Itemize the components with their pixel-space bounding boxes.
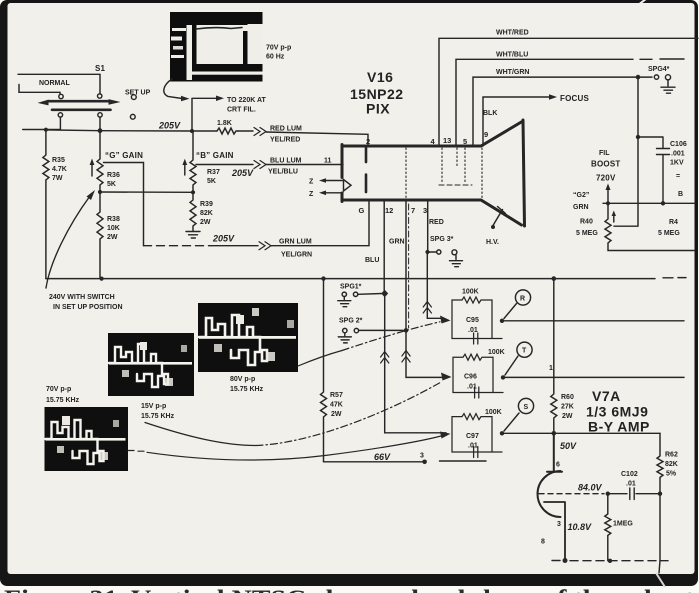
cut label B (676, 173, 683, 198)
pin 1 tick (549, 365, 553, 372)
svg-text:SPG 2*: SPG 2* (339, 318, 363, 325)
svg-text:2: 2 (366, 137, 370, 146)
node junction 1MEG bottom (608, 559, 612, 563)
label V16 15NP22 PIX (350, 69, 404, 117)
CRT V16 envelope (342, 120, 525, 226)
svg-text:YEL/RED: YEL/RED (270, 137, 300, 144)
wire WHT/RED (439, 38, 698, 146)
Z arrow lower (326, 192, 343, 194)
resistor R41 5 MEG (cut at edge) (658, 219, 680, 237)
svg-text:R36: R36 (107, 172, 120, 179)
chevrons on GRN branch (402, 351, 410, 363)
svg-text:R38: R38 (107, 216, 120, 223)
triode V7A cathode (544, 502, 565, 561)
wire BLU branch to C97 (385, 295, 446, 433)
svg-text:3: 3 (423, 206, 427, 215)
curved arrow from photo P1 (164, 79, 182, 99)
resistor R57 (321, 279, 327, 462)
svg-text:G: G (359, 206, 365, 215)
svg-text:RED LUM: RED LUM (270, 126, 302, 133)
svg-text:.01: .01 (468, 443, 478, 450)
resistor 1MEG (605, 494, 611, 561)
switch S1 bar 2 (52, 109, 111, 112)
svg-text:T: T (522, 348, 527, 355)
svg-text:100K: 100K (488, 349, 505, 356)
node junction cathode/ground line (563, 558, 568, 563)
capacitor C106 1KV (638, 137, 670, 203)
svg-text:BLK: BLK (483, 110, 497, 117)
svg-text:SPG4*: SPG4* (648, 66, 670, 73)
switch S1 contacts lower (58, 113, 62, 117)
svg-text:PIX: PIX (366, 101, 390, 117)
svg-text:70V p-p: 70V p-p (46, 386, 71, 393)
wire G2 bus (603, 202, 694, 204)
svg-text:YEL/GRN: YEL/GRN (281, 252, 312, 259)
node junction C96 out (501, 375, 505, 379)
label FIL BOOST 720V (591, 150, 620, 183)
node junction C102/R62 (658, 492, 662, 496)
svg-text:YEL/BLU: YEL/BLU (268, 169, 298, 176)
label BLK (483, 110, 497, 117)
svg-text:1KV: 1KV (670, 160, 684, 167)
wire GRN LUM dashed with chevrons (144, 245, 212, 247)
svg-text:6: 6 (556, 462, 560, 469)
svg-text:RED: RED (429, 219, 444, 226)
svg-text:2W: 2W (200, 219, 211, 226)
triode V7A grid (539, 493, 604, 495)
pin 7 (411, 206, 415, 215)
node junction C-cap tap (636, 135, 640, 139)
pin 2 (366, 137, 370, 146)
spark gap SPG4 (648, 66, 670, 73)
resistor R35 (43, 132, 49, 279)
label GRN (389, 239, 405, 246)
svg-text:7W: 7W (52, 175, 63, 182)
label RED LUM / YEL/RED (270, 126, 302, 144)
svg-text:IN SET UP POSITION: IN SET UP POSITION (53, 304, 123, 311)
svg-text:C97: C97 (466, 433, 479, 440)
svg-text:5K: 5K (107, 181, 116, 188)
label 70V p-p 15.75 KHz (46, 386, 80, 404)
svg-text:100K: 100K (485, 409, 502, 416)
wire 240V bus (46, 278, 686, 279)
node junction bus/R57 (321, 276, 325, 280)
wire NORMAL bracket (19, 85, 60, 95)
arrowhead into C95 (440, 316, 451, 324)
svg-text:R40: R40 (580, 219, 593, 226)
svg-text:SPG1*: SPG1* (340, 284, 362, 291)
wire R62 stub into frame (659, 561, 660, 573)
wire GRN branch to C96 (406, 330, 446, 377)
svg-text:“G” GAIN: “G” GAIN (105, 151, 143, 160)
pin 12 (385, 206, 393, 215)
curve from P4 to C97 (128, 450, 144, 453)
svg-text:WHT/RED: WHT/RED (496, 30, 529, 37)
svg-text:.001: .001 (671, 151, 685, 158)
wire from lower-left contact (23, 117, 61, 129)
label 70V p-p 60 Hz (266, 45, 291, 61)
node junction bus/R60 (552, 276, 557, 281)
svg-text:Z: Z (309, 191, 314, 198)
label GRN LUM / YEL/GRN (279, 239, 312, 259)
svg-text:10.8V: 10.8V (568, 522, 593, 532)
curved arrow 240V to R36 bottom (46, 196, 90, 288)
network box R-C C95 100K (452, 297, 502, 344)
wire SPG4 branch down (637, 77, 639, 137)
svg-text:5: 5 (463, 137, 467, 146)
chevrons on BLU branch (381, 352, 389, 364)
R40 wiper (613, 216, 615, 223)
wire arrow TO 220K (193, 97, 216, 99)
svg-text:“G2”: “G2” (573, 192, 589, 199)
node junction R36 bottom (98, 190, 102, 194)
label 205V (blu) (231, 168, 254, 178)
label 80V p-p 15.75 KHz (230, 376, 264, 393)
svg-text:V16: V16 (367, 69, 393, 85)
svg-text:5K: 5K (207, 178, 216, 185)
svg-text:205V: 205V (212, 234, 235, 244)
CRT grid bars (365, 148, 368, 192)
crease mark bottom frame (656, 573, 665, 587)
CRT internal dotted leads (406, 148, 482, 198)
svg-text:1/3 6MJ9: 1/3 6MJ9 (586, 404, 648, 420)
wire B-Y plate line (502, 432, 660, 434)
terminal 3 (422, 460, 427, 465)
svg-text:R62: R62 (665, 452, 678, 459)
svg-text:FOCUS: FOCUS (560, 94, 589, 103)
spark gap SPG3 (430, 236, 454, 243)
wire lower-right contact to bus (99, 117, 101, 131)
svg-text:47K: 47K (330, 402, 343, 409)
svg-text:R39: R39 (200, 201, 213, 208)
node junction R35 (44, 128, 48, 132)
svg-text:R57: R57 (330, 392, 343, 399)
arrowhead into C97 (440, 432, 451, 439)
label 15V p-p 15.75 KHz (141, 403, 175, 420)
svg-text:4.7K: 4.7K (52, 166, 67, 173)
pin G (359, 206, 365, 215)
svg-text:BLU: BLU (365, 257, 379, 264)
svg-text:NORMAL: NORMAL (39, 80, 70, 87)
svg-text:WHT/BLU: WHT/BLU (496, 52, 528, 59)
svg-text:R: R (520, 296, 525, 303)
wire RED branch to C95 (427, 252, 443, 318)
svg-text:84.0V: 84.0V (578, 483, 603, 493)
svg-text:80V p-p: 80V p-p (230, 376, 255, 383)
svg-text:9: 9 (484, 130, 488, 139)
triode V7A plate (547, 433, 562, 471)
svg-text:.01: .01 (467, 384, 477, 391)
svg-text:C96: C96 (464, 374, 477, 381)
scope photo P4 (70V p-p 15.75KHz) (45, 407, 129, 471)
crease mark top frame (638, 0, 646, 5)
svg-text:2W: 2W (331, 411, 342, 418)
label 205V (grn) (212, 234, 235, 244)
svg-text:R4: R4 (669, 219, 678, 226)
svg-text:“B” GAIN: “B” GAIN (196, 151, 234, 160)
node junction C95 out (500, 319, 504, 323)
SET UP position contacts (131, 95, 136, 100)
svg-text:15V p-p: 15V p-p (141, 403, 166, 410)
chevrons on RED branch (423, 302, 431, 314)
wire FOCUS arrow (483, 97, 549, 146)
label SET UP (125, 90, 151, 97)
svg-text:82K: 82K (200, 210, 213, 217)
node junction R38/bus (100, 277, 104, 281)
switch S1 bar with arrows (38, 99, 121, 105)
label "G" GAIN (105, 151, 143, 160)
resistor R60 (551, 279, 557, 434)
svg-text:C95: C95 (466, 317, 479, 324)
wire top line to S1 (18, 74, 100, 94)
wire pot-bottom tie line (100, 191, 193, 193)
label TO 220K AT CRT FIL. (227, 97, 266, 114)
spark gap SPG1 (340, 284, 362, 291)
label V7A 1/3 6MJ9 B-Y AMP (586, 388, 650, 435)
svg-text:GRN LUM: GRN LUM (279, 239, 312, 246)
svg-text:70V p-p: 70V p-p (266, 45, 291, 52)
label BLU LUM / pin 11 / YEL/BLU (268, 158, 332, 176)
R37 wiper arrow (184, 164, 186, 175)
svg-text:B-Y AMP: B-Y AMP (588, 419, 650, 435)
pin 4 (431, 137, 436, 146)
svg-text:Z: Z (309, 179, 314, 186)
svg-text:B: B (678, 191, 683, 198)
resistor R38 (97, 192, 103, 279)
ground R39 (186, 232, 200, 239)
svg-text:=: = (676, 173, 680, 180)
wire G-Y line (503, 376, 684, 378)
svg-text:8: 8 (541, 539, 545, 546)
wire 205V bus (46, 130, 217, 131)
label NORMAL (39, 80, 70, 87)
pin 13 (443, 136, 451, 145)
wire WHT/GRN (473, 77, 652, 146)
pin 3 (423, 206, 427, 215)
svg-text:205V: 205V (158, 121, 181, 131)
svg-text:SET UP: SET UP (125, 90, 151, 97)
wire dash-dot shield line (408, 204, 410, 328)
network box R-C C97 100K (452, 414, 502, 458)
svg-text:BOOST: BOOST (591, 160, 620, 169)
node junction S1/bus (98, 128, 103, 133)
triode V7A envelope (538, 471, 561, 517)
scope photo P1 (70V p-p 60Hz vertical waveform) (170, 12, 263, 82)
svg-text:7: 7 (411, 206, 415, 215)
svg-text:66V: 66V (374, 452, 391, 462)
svg-text:H.V.: H.V. (486, 239, 499, 246)
wire 720V arrow up (607, 189, 609, 203)
svg-text:R37: R37 (207, 169, 220, 176)
label "G2" GRN (573, 192, 589, 211)
wire 66V line (324, 460, 487, 463)
H.V. lead (491, 225, 495, 229)
wire GRN (pin7) down (405, 201, 407, 330)
test point T (517, 342, 532, 357)
svg-text:GRN: GRN (389, 239, 405, 246)
svg-text:60 Hz: 60 Hz (266, 54, 285, 61)
node junction plate line/R60 (552, 431, 557, 436)
svg-text:12: 12 (385, 206, 393, 215)
wire tap up (191, 98, 193, 131)
svg-text:S: S (524, 404, 529, 411)
svg-text:C102: C102 (621, 471, 638, 478)
test point S (518, 398, 533, 413)
wire RED LUM with chevrons (238, 131, 368, 146)
wire R36 wiper to GRN LUM (104, 163, 144, 246)
capacitor C102 (610, 488, 660, 500)
svg-text:TO 220K AT: TO 220K AT (227, 97, 266, 104)
resistor R62 (657, 433, 663, 561)
resistor 1.8K (217, 128, 238, 134)
potentiometer R37 (190, 131, 196, 192)
svg-text:S1: S1 (95, 64, 106, 73)
curve from P2 to C95 (298, 351, 342, 367)
svg-text:1: 1 (549, 365, 553, 372)
svg-text:11: 11 (324, 158, 332, 165)
node junction SPG3 (425, 250, 429, 254)
node junction SPG4 tap (636, 75, 641, 80)
svg-text:R60: R60 (561, 394, 574, 401)
svg-text:Figure 31. Vertical NTSC chrom: Figure 31. Vertical NTSC chroma levels b… (4, 586, 695, 593)
potentiometer R40 5 MEG (605, 203, 694, 250)
svg-text:15.75 KHz: 15.75 KHz (141, 413, 175, 420)
svg-text:10K: 10K (107, 225, 120, 232)
R36 wiper arrow (91, 164, 93, 176)
svg-text:R35: R35 (52, 157, 65, 164)
svg-text:SPG 3*: SPG 3* (430, 236, 454, 243)
node junction SPG2/GRN (404, 328, 409, 333)
CRT electron gun (344, 180, 352, 192)
test point R (515, 290, 530, 305)
label BLU (365, 257, 379, 264)
svg-text:2W: 2W (107, 234, 118, 241)
switch S1 label (95, 64, 106, 73)
svg-text:C106: C106 (670, 141, 687, 148)
wire BLU LUM with chevrons (196, 164, 343, 166)
node junction at TO-220K tap (190, 129, 194, 133)
switch S1 contacts upper (59, 94, 63, 98)
node junction R37 bottom (191, 190, 195, 194)
svg-text:FIL: FIL (599, 150, 610, 157)
arrowhead into C96 (441, 373, 452, 381)
label "B" GAIN (196, 151, 234, 160)
wire RED (pin3) down (427, 201, 429, 251)
svg-text:5%: 5% (666, 471, 677, 478)
resistor R39 (190, 192, 196, 230)
svg-text:CRT FIL.: CRT FIL. (227, 107, 256, 114)
node junction grid/1MEG (606, 492, 610, 496)
Z arrow upper (326, 180, 343, 182)
svg-text:.01: .01 (468, 327, 478, 334)
svg-text:3: 3 (420, 453, 424, 460)
svg-text:GRN: GRN (573, 204, 589, 211)
svg-text:1.8K: 1.8K (217, 120, 232, 127)
pin 5 (463, 137, 467, 146)
CRT internal dashed link (439, 184, 472, 186)
terminal diamond SPG1/BLU (381, 290, 388, 297)
svg-text:50V: 50V (560, 441, 577, 451)
svg-text:.01: .01 (626, 481, 636, 488)
wire WHT/BLU (456, 59, 684, 146)
svg-text:13: 13 (443, 136, 451, 145)
svg-text:1MEG: 1MEG (613, 521, 633, 528)
wire R-Y line (502, 320, 684, 322)
svg-text:82K: 82K (665, 461, 678, 468)
scope photo P2 (80V p-p 15.75KHz) (198, 303, 298, 372)
network box R-C C96 100K (453, 354, 503, 398)
svg-text:15.75 KHz: 15.75 KHz (230, 386, 264, 393)
curve from P3 to C96 (145, 423, 256, 446)
svg-text:2W: 2W (562, 413, 573, 420)
node junction C97 out (500, 431, 504, 435)
scope photo P3 (15V p-p 15.75KHz) (108, 333, 194, 396)
svg-text:5 MEG: 5 MEG (658, 230, 680, 237)
svg-text:27K: 27K (561, 404, 574, 411)
label 240V WITH SWITCH IN SET UP POSITION (49, 294, 123, 311)
svg-text:720V: 720V (596, 174, 616, 183)
svg-text:5 MEG: 5 MEG (576, 230, 598, 237)
wire BLU (pin12) down (383, 201, 385, 293)
svg-text:WHT/GRN: WHT/GRN (496, 69, 529, 76)
svg-text:240V WITH SWITCH: 240V WITH SWITCH (49, 294, 115, 301)
svg-text:15.75 KHz: 15.75 KHz (46, 397, 80, 404)
pin 9 (484, 130, 488, 139)
svg-text:3: 3 (557, 521, 561, 528)
label 205V (158, 121, 181, 131)
svg-text:205V: 205V (231, 168, 254, 178)
svg-text:V7A: V7A (592, 388, 621, 404)
potentiometer R36 (97, 133, 103, 192)
svg-text:100K: 100K (462, 289, 479, 296)
wire dashed ground return (552, 560, 668, 562)
svg-text:BLU LUM: BLU LUM (270, 158, 302, 165)
spark gap SPG2 (339, 318, 363, 325)
